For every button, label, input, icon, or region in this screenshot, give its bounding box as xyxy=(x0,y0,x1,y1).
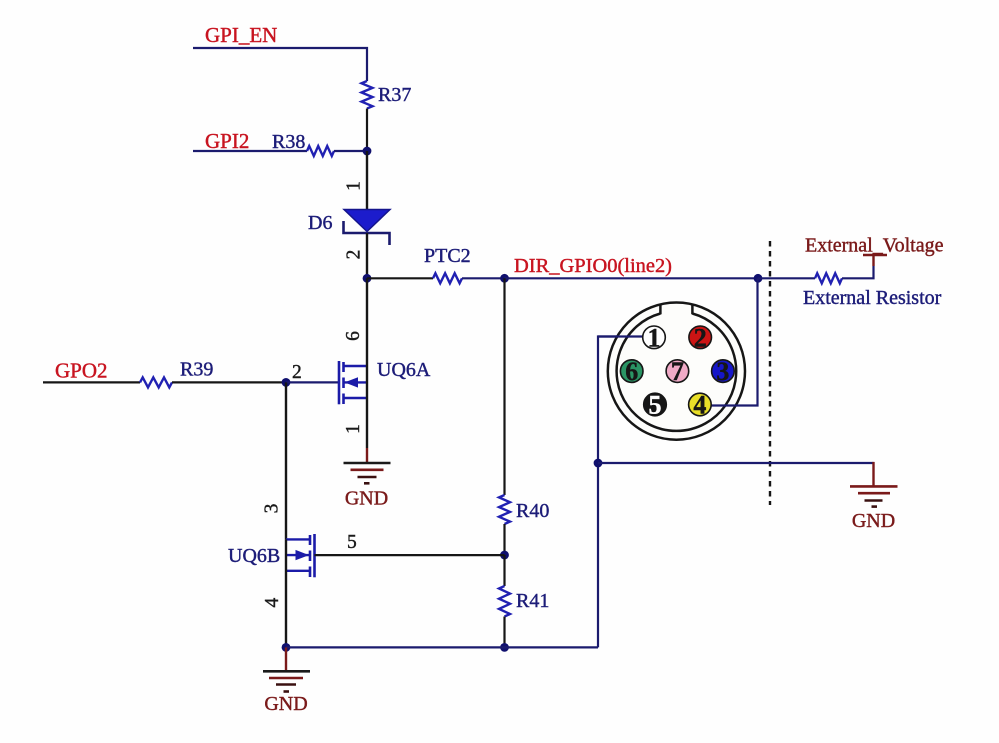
connector inner circle xyxy=(617,314,737,431)
connector pin 7 xyxy=(666,357,689,386)
resistor R40 xyxy=(499,495,510,524)
svg-text:PTC2: PTC2 xyxy=(424,245,471,267)
junction bottom rail / R41 xyxy=(500,643,509,652)
connector pin 3 xyxy=(712,357,735,386)
svg-text:2: 2 xyxy=(292,362,302,383)
wire PTC2 to DIR node xyxy=(462,277,505,279)
wire to external voltage terminal xyxy=(842,266,874,278)
wire node5 to R41 xyxy=(503,555,505,586)
svg-text:R40: R40 xyxy=(516,500,549,522)
svg-text:GPI_EN: GPI_EN xyxy=(205,23,277,47)
svg-text:1: 1 xyxy=(648,323,661,352)
svg-text:External_Voltage: External_Voltage xyxy=(805,235,944,257)
svg-text:R38: R38 xyxy=(272,131,305,153)
junction node 5 xyxy=(500,551,509,560)
transistor UQ6B xyxy=(286,534,315,577)
wire UQ6A source to GND xyxy=(366,398,368,448)
resistor PTC2 xyxy=(433,273,462,283)
svg-text:GPI2: GPI2 xyxy=(205,129,249,153)
wire pin 4 lead xyxy=(711,278,758,405)
svg-text:6: 6 xyxy=(343,331,364,341)
wire diode to PTC node xyxy=(366,233,368,278)
svg-text:1: 1 xyxy=(343,424,364,434)
wire node to PTC2 xyxy=(367,277,433,279)
wire pin5 to R40/R41 node xyxy=(315,554,505,556)
junction mid rail xyxy=(594,459,603,468)
svg-text:1: 1 xyxy=(344,181,365,191)
wire gate node down xyxy=(285,382,287,539)
svg-text:4: 4 xyxy=(262,597,283,607)
svg-text:D6: D6 xyxy=(308,212,332,234)
svg-text:2: 2 xyxy=(694,323,707,352)
svg-text:External Resistor: External Resistor xyxy=(803,287,942,309)
wire UQ6A channel vertical xyxy=(366,278,368,398)
wire GPI2 xyxy=(193,150,307,152)
connector keyway notch xyxy=(660,304,692,315)
connector pin 2 xyxy=(689,323,712,352)
svg-text:5: 5 xyxy=(649,391,662,420)
svg-text:5: 5 xyxy=(347,532,357,553)
wire UQ6B vertical xyxy=(285,539,287,647)
resistor External Resistor xyxy=(815,273,842,283)
resistor R38 xyxy=(307,146,334,156)
ground GND (bottom) xyxy=(263,671,310,715)
svg-text:3: 3 xyxy=(262,504,283,514)
transistor UQ6A xyxy=(339,361,367,404)
connector pin 6 xyxy=(620,357,643,386)
connector pin 1 xyxy=(643,323,666,352)
wire R39 to gate node xyxy=(172,381,286,383)
svg-text:UQ6B: UQ6B xyxy=(228,545,280,567)
resistor R37 xyxy=(362,81,373,109)
wire R37 to node xyxy=(366,109,368,152)
diode D6 xyxy=(344,210,391,246)
wire R40 to node5 xyxy=(503,524,505,555)
svg-text:4: 4 xyxy=(693,391,706,420)
wire R41 to bottom rail xyxy=(503,617,505,648)
wire loop: bottom rail up to pin1 xyxy=(598,337,644,648)
svg-text:6: 6 xyxy=(625,357,638,386)
wire mid rail to right gnd xyxy=(598,462,874,464)
wire node to diode pin 1 xyxy=(366,151,368,210)
junction node DIR_GPIO0 xyxy=(500,274,509,283)
svg-text:GND: GND xyxy=(264,693,307,715)
wire R38 to node xyxy=(334,150,367,152)
resistor R39 xyxy=(140,377,172,387)
resistor R41 xyxy=(499,586,510,617)
svg-text:GND: GND xyxy=(852,510,895,532)
connector outer circle xyxy=(608,303,745,440)
wire pin 1 lead xyxy=(598,335,644,337)
wire gate lead UQ6A xyxy=(286,381,339,383)
junction node R38/R37 xyxy=(363,147,372,156)
svg-text:R41: R41 xyxy=(516,590,549,612)
wire to bottom ground xyxy=(285,647,287,670)
external voltage terminal xyxy=(863,255,887,266)
svg-text:R39: R39 xyxy=(180,359,213,381)
junction node pin4 riser xyxy=(754,274,763,283)
svg-text:7: 7 xyxy=(671,357,684,386)
svg-text:R37: R37 xyxy=(378,84,411,106)
wire through dashed boundary xyxy=(758,277,815,279)
wire DIR node down xyxy=(503,278,505,495)
svg-text:GPO2: GPO2 xyxy=(55,359,108,383)
wire DIR to right xyxy=(505,277,759,279)
junction gate node xyxy=(282,378,291,387)
connector pin 5 xyxy=(644,391,667,420)
svg-text:GND: GND xyxy=(345,488,388,510)
connector body fill xyxy=(608,303,745,440)
svg-text:UQ6A: UQ6A xyxy=(377,359,431,381)
ground GND (right) xyxy=(850,486,898,532)
dashed boundary xyxy=(769,241,771,505)
svg-text:3: 3 xyxy=(716,357,729,386)
svg-text:DIR_GPIO0(line2): DIR_GPIO0(line2) xyxy=(514,255,672,277)
junction node PTC xyxy=(363,274,372,283)
svg-text:2: 2 xyxy=(344,250,365,260)
wire GPO2 xyxy=(43,381,140,383)
connector pin 4 xyxy=(689,391,712,420)
wire bottom rail xyxy=(286,646,598,648)
junction bottom rail / UQ6B xyxy=(282,643,291,652)
ground GND (UQ6A) xyxy=(344,463,391,510)
wire GPI_EN horizontal xyxy=(193,48,367,81)
